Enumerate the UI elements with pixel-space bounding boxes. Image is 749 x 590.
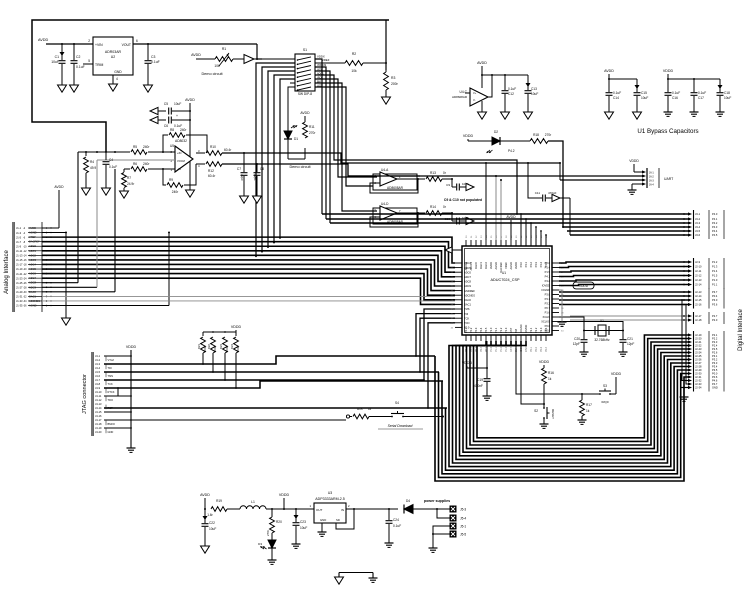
wire U4-D output: [397, 212, 425, 214]
wire analog row16 (gray): [42, 295, 455, 297]
svg-text:V-: V-: [473, 98, 476, 102]
svg-text:VREF: VREF: [504, 262, 508, 269]
wire buffer to S1: [254, 58, 295, 60]
svg-text:TDO: TDO: [108, 398, 113, 402]
wire VREF routing loop top-left: [32, 20, 389, 152]
wire analog row14 to VOCM riser: [42, 160, 97, 287]
svg-text:P1.0: P1.0: [489, 327, 493, 333]
wire JTAG TDO row: [104, 323, 455, 409]
ground (C3): [144, 85, 153, 92]
svg-text:D3: D3: [258, 542, 262, 546]
svg-text:10uF: 10uF: [724, 96, 731, 100]
connector J6 UART: [642, 168, 673, 188]
svg-text:J2-14: J2-14: [695, 283, 702, 287]
wire JTAG TMS row: [104, 318, 455, 373]
svg-text:R3: R3: [391, 76, 395, 80]
svg-text:J1-31: J1-31: [16, 295, 23, 299]
svg-text:J4-3: J4-3: [95, 362, 101, 366]
svg-text:VDDD: VDDD: [579, 284, 589, 288]
svg-text:IRQ0: IRQ0: [601, 400, 608, 404]
svg-text:10uF: 10uF: [531, 92, 538, 96]
svg-text:10k: 10k: [351, 69, 357, 73]
ground (J5): [429, 548, 438, 552]
wire U4-A feedback: [370, 179, 418, 193]
LED D2: [486, 130, 515, 154]
svg-text:P2.1: P2.1: [529, 327, 533, 333]
wire J2 lower rows 14-15: [681, 299, 688, 384]
ground (C22): [201, 546, 210, 553]
svg-text:J6-3: J6-3: [649, 179, 654, 182]
wire AVDD to U2: [46, 43, 93, 45]
capacitor C18 10uF: [717, 85, 732, 112]
svg-text:Demo circuit: Demo circuit: [289, 165, 311, 169]
wire VDDD to C19: [467, 341, 488, 378]
wires S1 left pins to analog bus: [255, 63, 295, 257]
svg-text:P0.4: P0.4: [712, 294, 718, 298]
svg-text:P1.3: P1.3: [505, 346, 508, 352]
svg-text:24.9r: 24.9r: [127, 182, 135, 186]
ground (JTAG): [127, 448, 136, 452]
op-amp U4-D AD8608AR: [373, 202, 417, 224]
wire -IN input: [148, 168, 175, 170]
capacitor C9 10nF: [446, 179, 469, 191]
wire VDDD to D2: [468, 140, 492, 142]
wire IOGND to ground: [559, 290, 562, 322]
svg-text:R16: R16: [548, 371, 554, 375]
svg-text:AVDD: AVDD: [300, 111, 310, 115]
svg-text:J4-10: J4-10: [95, 390, 102, 394]
svg-text:C23: C23: [300, 520, 306, 524]
svg-text:U2: U2: [111, 55, 116, 59]
svg-text:P1.3: P1.3: [712, 265, 718, 269]
svg-text:DAC0: DAC0: [29, 290, 36, 294]
svg-text:0.1uF: 0.1uF: [151, 60, 160, 64]
resistor R2 10k: [345, 52, 363, 73]
wire UART ground: [632, 184, 642, 190]
buffer amp (demo circuit): [244, 55, 254, 64]
resistor R3 200r: [384, 70, 399, 97]
ground (C12): [501, 112, 510, 119]
svg-text:P4.0: P4.0: [712, 212, 718, 216]
svg-text:P2.0: P2.0: [712, 318, 718, 322]
wire bus J2 rows upper: [559, 261, 688, 285]
svg-text:ADC0: ADC0: [29, 244, 36, 248]
svg-text:AVDD: AVDD: [191, 53, 201, 57]
svg-text:D2: D2: [494, 130, 498, 134]
svg-text:AD8608AR: AD8608AR: [452, 95, 468, 99]
resistor R24 100k: [230, 337, 240, 389]
resistor R4 49.9r: [84, 152, 97, 188]
power flag VDDD (UART): [629, 159, 642, 172]
svg-text:P1.1: P1.1: [494, 327, 498, 333]
wire AGND row2 to ground: [42, 232, 170, 318]
wire R1 to buffer: [233, 58, 244, 60]
svg-text:P1.5: P1.5: [545, 270, 551, 274]
svg-text:GND: GND: [320, 518, 326, 522]
svg-text:J4-16: J4-16: [95, 414, 102, 418]
svg-text:J1-15: J1-15: [16, 258, 23, 262]
svg-text:U3: U3: [328, 491, 332, 495]
wire bus J2 rows pair: [570, 315, 688, 321]
resistor R22 100k: [207, 336, 217, 373]
svg-text:R13: R13: [430, 171, 436, 175]
svg-text:0.1uF: 0.1uF: [76, 65, 85, 69]
net arrow (C11): [552, 194, 570, 235]
svg-text:AVDD: AVDD: [514, 262, 518, 269]
wire feedback bottom (AD8032): [163, 164, 196, 185]
svg-text:J4-15: J4-15: [95, 410, 102, 414]
svg-text:J4-20: J4-20: [95, 430, 102, 434]
svg-text:J3-6: J3-6: [695, 233, 701, 237]
net arrow (serial download): [346, 415, 352, 418]
svg-text:1k: 1k: [368, 407, 372, 411]
svg-text:VDDD: VDDD: [629, 159, 639, 163]
svg-text:240r: 240r: [180, 128, 187, 132]
svg-text:P4.4: P4.4: [539, 261, 543, 267]
connector J3 digital P4: [688, 210, 724, 239]
wire XCLKI to crystal: [559, 317, 584, 331]
svg-text:J6-1: J6-1: [649, 171, 654, 174]
svg-text:J1-11: J1-11: [16, 249, 23, 253]
svg-text:J5-1: J5-1: [460, 524, 466, 528]
svg-text:D4: D4: [406, 499, 410, 503]
svg-text:U5: U5: [170, 144, 174, 148]
svg-text:J2-25: J2-25: [695, 354, 702, 358]
svg-text:VREF: VREF: [322, 58, 330, 62]
label Demo circuit (LED): [289, 165, 311, 169]
svg-text:R8: R8: [170, 128, 174, 132]
svg-text:VDDD: VDDD: [462, 361, 473, 365]
svg-text:J1-23: J1-23: [16, 276, 23, 280]
svg-text:P0.6: P0.6: [712, 375, 718, 379]
svg-text:J1-13: J1-13: [16, 254, 23, 258]
svg-text:TDI: TDI: [464, 312, 468, 316]
svg-text:AVDD: AVDD: [477, 61, 487, 65]
svg-text:P4.4: P4.4: [712, 229, 718, 233]
net label VDDD (IOVDD): [559, 282, 594, 289]
svg-text:100k: 100k: [236, 345, 240, 352]
svg-text:J2-21: J2-21: [695, 340, 702, 344]
label U1 Bypass Capacitors: [637, 128, 698, 135]
svg-text:Digital Interface: Digital Interface: [738, 308, 744, 350]
power flag VDDD (reset): [539, 360, 550, 368]
svg-text:240r: 240r: [172, 190, 179, 194]
net arrow (C6): [150, 116, 166, 123]
connector J2 digital lower: [688, 331, 724, 392]
svg-text:J4-4: J4-4: [95, 366, 101, 370]
svg-text:+IN: +IN: [177, 151, 181, 155]
svg-text:J2-31: J2-31: [695, 375, 702, 379]
svg-text:0.1uF: 0.1uF: [508, 87, 516, 91]
svg-text:P3.2: P3.2: [712, 358, 718, 362]
svg-text:C7: C7: [237, 167, 241, 171]
svg-text:AVDD: AVDD: [200, 493, 210, 497]
switch S3 IRQ: [598, 384, 616, 404]
svg-text:VDDD: VDDD: [663, 69, 674, 73]
capacitor C10 10nF: [444, 213, 469, 225]
svg-text:ADC4: ADC4: [464, 261, 471, 265]
svg-text:DAC1: DAC1: [464, 303, 471, 307]
svg-text:10uF: 10uF: [641, 96, 648, 100]
wire XCLKO to crystal: [559, 322, 623, 331]
capacitor C13 10uF: [525, 75, 539, 112]
ground (C13): [524, 112, 533, 119]
svg-text:49.9: 49.9: [90, 166, 96, 170]
microcontroller U1 ADUC7024_CSP: [451, 235, 565, 352]
svg-text:P0.1: P0.1: [464, 327, 468, 333]
svg-text:P4.1: P4.1: [712, 217, 718, 221]
svg-text:RST: RST: [510, 347, 513, 352]
svg-text:P1.4: P1.4: [712, 269, 718, 273]
svg-text:0.1uF: 0.1uF: [613, 91, 621, 95]
svg-text:P4.2: P4.2: [545, 279, 551, 283]
ground (analog AGND): [62, 318, 71, 325]
svg-text:240r: 240r: [143, 145, 150, 149]
svg-text:VDDD: VDDD: [279, 493, 290, 497]
svg-text:U1 Bypass Capacitors: U1 Bypass Capacitors: [637, 128, 698, 135]
svg-text:22pF: 22pF: [240, 174, 244, 181]
wire feedback top (AD8032): [163, 135, 207, 153]
svg-text:J4-2: J4-2: [95, 358, 101, 362]
svg-text:J4-18: J4-18: [95, 422, 102, 426]
svg-text:J4-17: J4-17: [95, 418, 102, 422]
svg-text:J2-33: J2-33: [695, 382, 702, 386]
svg-text:0.1uF: 0.1uF: [698, 91, 706, 95]
svg-text:VOCM: VOCM: [177, 159, 185, 163]
svg-text:J2-28: J2-28: [695, 365, 702, 369]
svg-text:Analog Interface: Analog Interface: [4, 249, 10, 293]
wire S1.8 to LED D1: [288, 87, 295, 131]
svg-text:IOGND: IOGND: [541, 288, 550, 292]
svg-text:R9: R9: [169, 178, 173, 182]
wire AVDD row1: [42, 185, 64, 228]
op-amp U4-A AD8608AR: [373, 168, 417, 190]
svg-text:J4-14: J4-14: [95, 406, 102, 410]
svg-text:P0.0: P0.0: [712, 372, 718, 376]
svg-text:32.768kHz: 32.768kHz: [594, 338, 610, 342]
ground (C18): [716, 112, 725, 116]
svg-text:AVDD: AVDD: [185, 98, 195, 102]
svg-text:+VIN: +VIN: [95, 43, 103, 47]
svg-text:P1.0: P1.0: [490, 346, 493, 352]
svg-text:D1: D1: [294, 137, 298, 141]
svg-text:J1-19: J1-19: [16, 267, 23, 271]
svg-text:J1-27: J1-27: [16, 285, 23, 289]
svg-text:R20: R20: [276, 520, 282, 524]
wire S1.7 down to U4-D: [315, 83, 377, 211]
svg-text:P0.3: P0.3: [474, 327, 478, 333]
wire bus J3 rows: [322, 213, 688, 246]
svg-text:J2-26: J2-26: [695, 358, 702, 362]
power flag AVDD (U4-C): [477, 61, 487, 65]
svg-text:ADUC7024_CSP: ADUC7024_CSP: [490, 278, 520, 282]
svg-text:ADC3: ADC3: [29, 258, 36, 262]
capacitor C14 0.1uF: [606, 91, 622, 112]
svg-text:R7: R7: [127, 176, 131, 180]
svg-text:V+: V+: [473, 91, 477, 95]
resistor R17 1k: [580, 394, 592, 420]
svg-text:J1-3: J1-3: [16, 231, 22, 235]
svg-text:P2.2: P2.2: [535, 346, 538, 352]
svg-text:Demo circuit: Demo circuit: [201, 72, 223, 76]
ground (C2): [70, 85, 79, 92]
svg-text:6: 6: [136, 39, 138, 43]
svg-text:C9 & C10 not populated: C9 & C10 not populated: [444, 198, 482, 202]
wire LED loop bottom: [288, 148, 305, 159]
svg-text:C18: C18: [724, 91, 730, 95]
svg-text:J1-1: J1-1: [16, 226, 22, 230]
power flag VDDD (pull-ups): [231, 325, 242, 329]
svg-text:J1-9: J1-9: [16, 244, 22, 248]
capacitor C11 470pF: [527, 162, 557, 202]
wire JTAG RTCK row: [104, 381, 443, 396]
svg-text:1k: 1k: [586, 409, 590, 413]
wire U2 GND to ground: [112, 75, 114, 84]
wire pull-up rail: [203, 330, 236, 336]
svg-text:J1-33: J1-33: [16, 299, 23, 303]
svg-text:C2: C2: [76, 55, 80, 59]
connector J5 power: [450, 506, 466, 537]
resistor R9 240r (feedback): [167, 178, 183, 194]
ground (C14): [605, 112, 614, 119]
svg-text:ADC8: ADC8: [29, 281, 36, 285]
svg-text:J5-4: J5-4: [460, 516, 466, 520]
power flag AVDD (AD8032): [185, 98, 195, 102]
wire BM net: [516, 341, 598, 395]
svg-text:ADC5: ADC5: [29, 267, 36, 271]
svg-text:J2-19: J2-19: [695, 333, 702, 337]
svg-text:TMS: TMS: [108, 374, 114, 378]
wire bus J2 rows mid: [559, 291, 688, 305]
svg-text:10uF: 10uF: [51, 60, 59, 64]
wire U3 SD to IN: [336, 508, 355, 529]
svg-text:P3.0: P3.0: [712, 298, 718, 302]
svg-text:DACREF: DACREF: [29, 240, 40, 244]
capacitor C5 10uF: [164, 102, 190, 118]
svg-text:J4-8: J4-8: [95, 382, 101, 386]
svg-text:10uF: 10uF: [300, 526, 307, 530]
power flag AVDD (top left): [38, 38, 49, 42]
svg-text:IOVDD: IOVDD: [524, 325, 528, 333]
power flag AVDD (bypass): [604, 69, 614, 73]
svg-text:C5: C5: [164, 102, 168, 106]
svg-text:J1-17: J1-17: [16, 263, 23, 267]
ground (U2): [109, 84, 118, 91]
svg-text:C8: C8: [260, 167, 264, 171]
svg-text:C9: C9: [446, 183, 450, 187]
svg-text:R5: R5: [133, 145, 137, 149]
svg-text:22pF: 22pF: [253, 174, 257, 181]
svg-text:P4.1: P4.1: [524, 261, 528, 267]
ground (C8): [253, 196, 262, 203]
svg-text:VOUT: VOUT: [122, 43, 131, 47]
wire R18 to J3 row4: [548, 141, 564, 228]
wire to J5-4: [437, 509, 450, 518]
svg-text:P4.3: P4.3: [534, 261, 538, 267]
wire VOUT down to demo buffer: [257, 44, 262, 59]
ground (AVDD rail cap): [186, 190, 195, 197]
svg-text:VDDD: VDDD: [539, 360, 550, 364]
ground (D3): [268, 560, 277, 564]
svg-text:Serial Download: Serial Download: [388, 424, 413, 428]
svg-text:GND: GND: [108, 430, 114, 434]
svg-text:J2-16: J2-16: [695, 303, 702, 307]
svg-text:TMS: TMS: [464, 307, 470, 311]
wire TRIM stub: [83, 63, 93, 65]
svg-text:P3.5: P3.5: [712, 368, 718, 372]
ground (R17): [578, 420, 587, 424]
resistor R10 60.4r: [196, 145, 232, 155]
svg-text:DAC2: DAC2: [484, 261, 488, 268]
svg-text:ADC8: ADC8: [464, 280, 471, 284]
svg-text:R18: R18: [533, 133, 539, 137]
svg-text:VDDD: VDDD: [126, 345, 137, 349]
capacitor C22 10uF: [202, 509, 217, 546]
ground (U4-C): [478, 112, 487, 119]
connector J1 analog interface: [13, 222, 52, 312]
svg-text:P2.3: P2.3: [712, 340, 718, 344]
svg-text:P3.6: P3.6: [712, 303, 718, 307]
resistor R5 240r: [115, 145, 150, 154]
svg-text:P2.6: P2.6: [712, 351, 718, 355]
svg-text:XCLKO: XCLKO: [541, 320, 550, 324]
resistor R15 1k: [353, 407, 390, 419]
svg-text:ADC9: ADC9: [464, 284, 471, 288]
capacitor C7 22pF: [237, 153, 248, 196]
ground (C20): [580, 352, 589, 356]
svg-text:P1.1: P1.1: [712, 283, 718, 287]
svg-text:J4-12: J4-12: [95, 398, 102, 402]
svg-text:J3-1: J3-1: [695, 212, 701, 216]
svg-text:C24: C24: [393, 518, 399, 522]
svg-text:SD: SD: [336, 518, 340, 522]
svg-text:1k: 1k: [548, 377, 552, 381]
crystal Y1 32.768kHz: [583, 319, 624, 342]
svg-text:270r: 270r: [309, 131, 316, 135]
svg-text:J4-5: J4-5: [95, 370, 101, 374]
svg-text:J1-5: J1-5: [16, 235, 22, 239]
svg-text:P3.2: P3.2: [545, 302, 551, 306]
svg-text:VREF: VREF: [29, 235, 36, 239]
wire P1.1 to UART: [348, 175, 642, 177]
svg-text:J4-19: J4-19: [95, 426, 102, 430]
svg-text:P3.4: P3.4: [712, 365, 718, 369]
svg-text:P4.1: P4.1: [545, 275, 551, 279]
wire AVDD bypass rail: [608, 74, 637, 92]
svg-text:C15: C15: [641, 91, 647, 95]
svg-text:P3.1: P3.1: [712, 354, 718, 358]
svg-text:100k: 100k: [225, 345, 229, 352]
svg-text:J2-10: J2-10: [695, 265, 702, 269]
svg-text:J2-13: J2-13: [695, 290, 702, 294]
svg-text:R23: R23: [219, 344, 223, 350]
wire AVDD rail (U4-C): [481, 66, 528, 88]
svg-text:ADC2: ADC2: [29, 253, 36, 257]
svg-text:2: 2: [88, 39, 90, 43]
wire nested bus U1 to J2 lower: [435, 335, 688, 481]
svg-text:P1.5: P1.5: [712, 274, 718, 278]
svg-text:P0.7: P0.7: [545, 306, 551, 310]
regulator U3 ADP3333ARM-2.5: [309, 491, 350, 523]
svg-text:P1.2: P1.2: [500, 346, 503, 352]
wire S1.8 down: [315, 87, 373, 186]
svg-text:R22: R22: [207, 344, 211, 350]
wire ground tie: [339, 573, 373, 579]
svg-text:UART: UART: [664, 177, 673, 181]
svg-text:P0.4: P0.4: [479, 327, 483, 333]
capacitor C4 0.1uF: [103, 152, 118, 188]
capacitor C15 10uF: [634, 85, 649, 112]
